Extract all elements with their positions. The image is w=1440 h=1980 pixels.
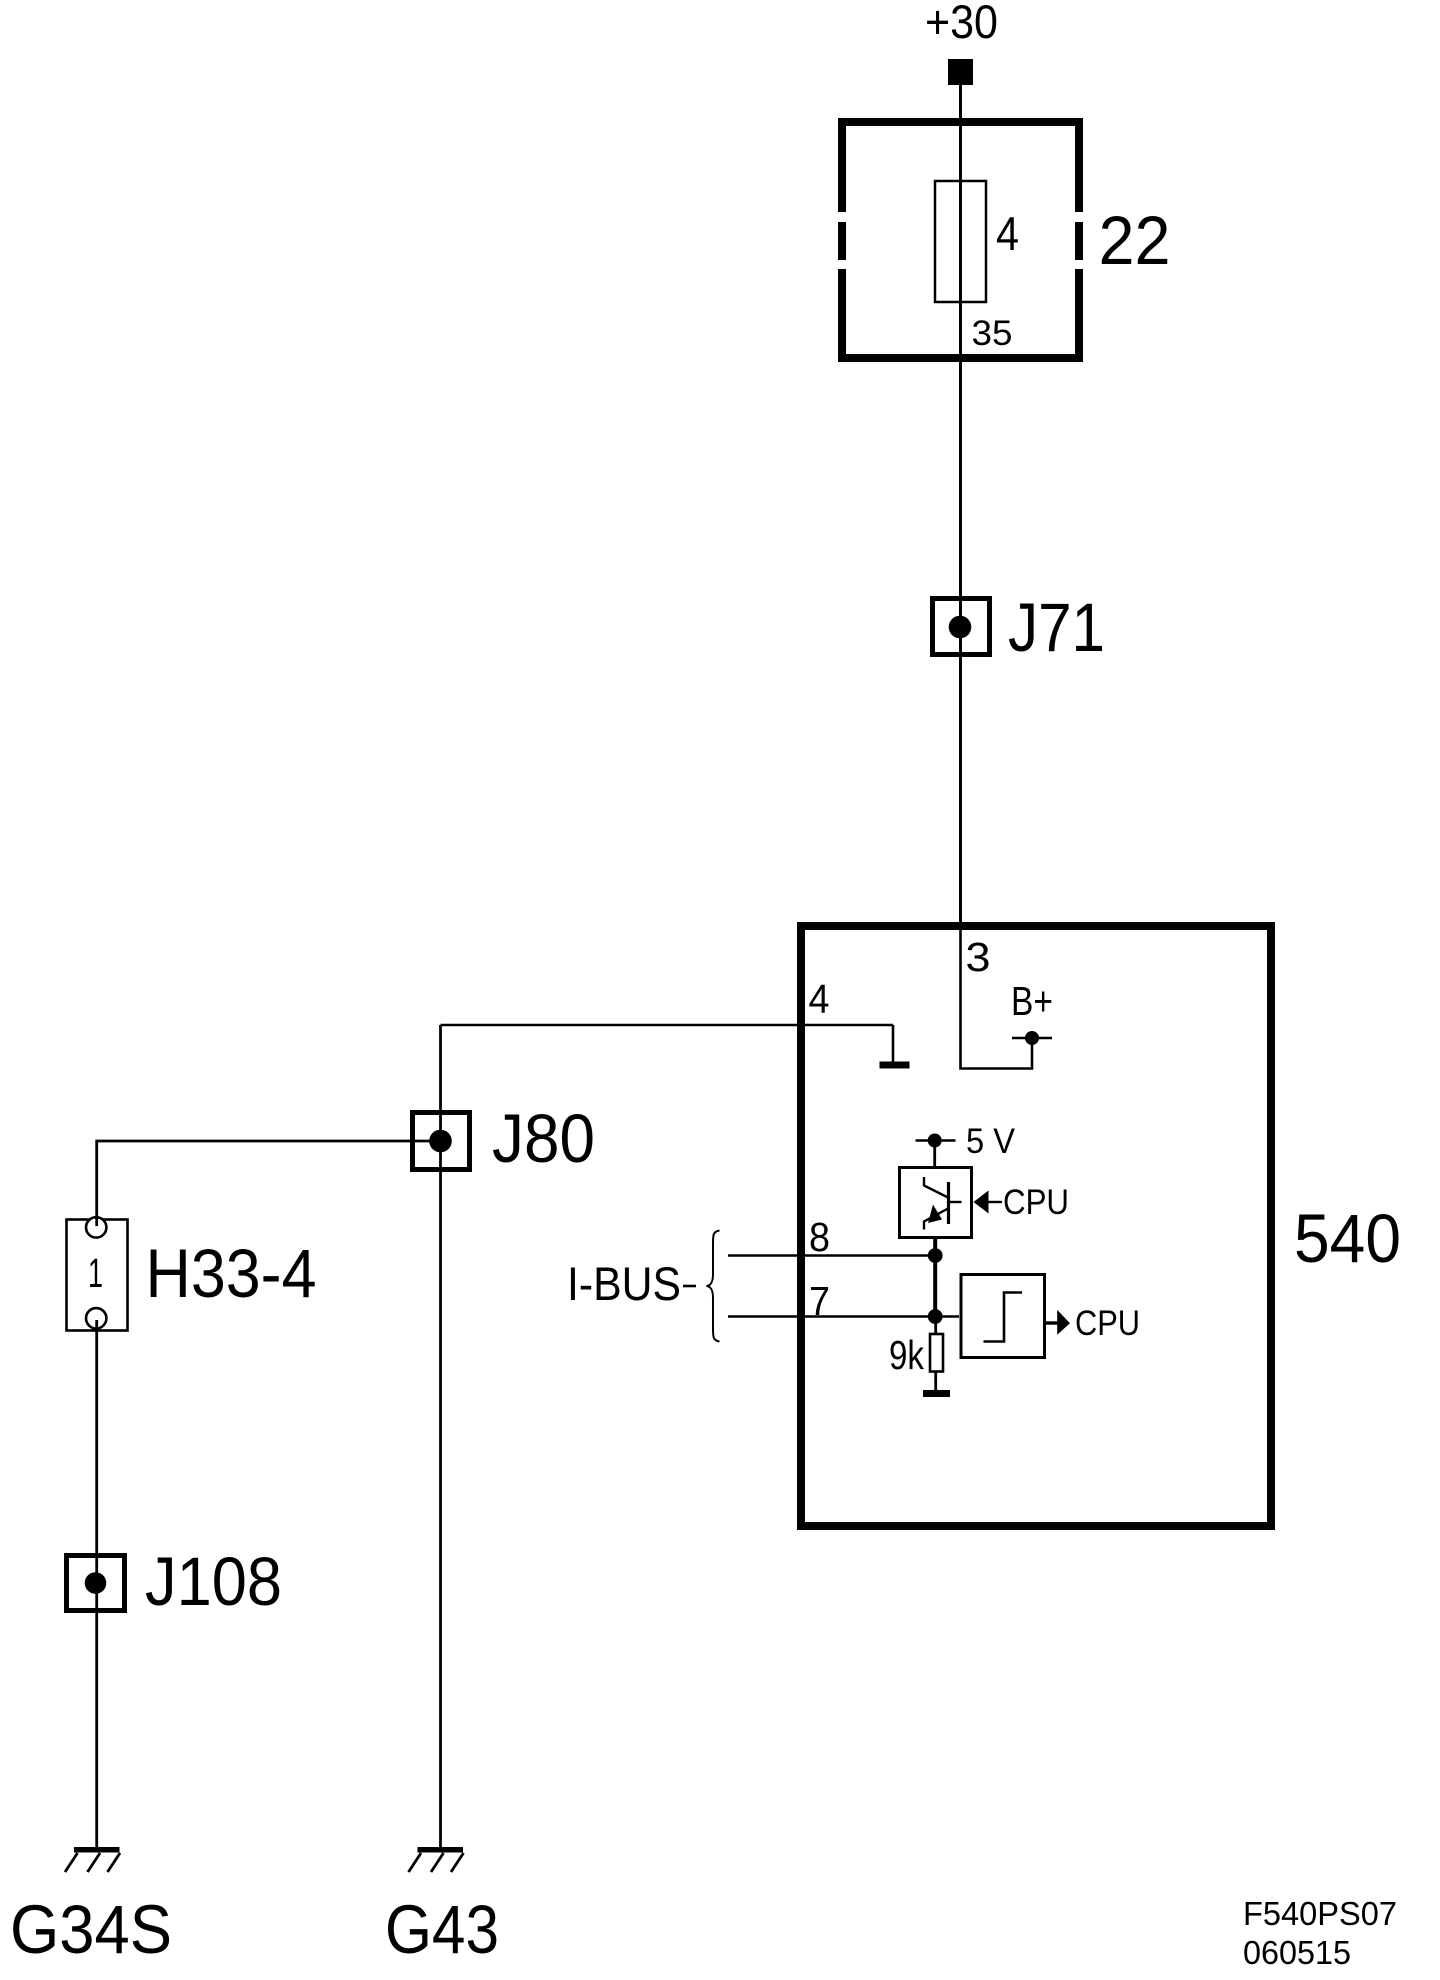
wire 5V to optocoupler [933,1146,936,1167]
pin 8 wire [728,1254,935,1257]
wire from J71 down to control module 540 pin 3 [959,627,962,926]
fusebox 22 top border [838,118,1083,126]
optocoupler U1 box [900,1168,972,1238]
5V supply bar [916,1139,956,1142]
svg-text:4: 4 [809,976,830,1022]
connector H33-4 bottom circle [86,1308,106,1328]
wire optocoupler down through node 8 to node 7 [933,1237,937,1317]
svg-text:F540PS07: F540PS07 [1243,1895,1397,1932]
svg-text:7: 7 [809,1278,830,1324]
wire from +30 square down to fuse box 22 [959,85,962,182]
I-BUS brace [707,1231,720,1342]
B+ node bar [1012,1037,1052,1039]
svg-text:G43: G43 [385,1891,499,1968]
optocoupler transistor collector tick [924,1177,948,1198]
junction J108 dot [85,1572,107,1594]
wire down to H33-4 [95,1140,98,1218]
pin 4 internal ground bar [880,1062,910,1069]
node 8 junction dot [928,1248,943,1263]
wire from fuse down to junction J71 [959,302,962,627]
schmitt trigger step symbol [984,1293,1023,1342]
wire H33-4 down to J108 [95,1328,98,1583]
CPU arrow out of schmitt lead [1043,1321,1058,1324]
wire pin4 corner down to J80 [439,1025,442,1141]
connector H33-4 top circle [86,1217,106,1237]
svg-text:+30: +30 [925,0,998,48]
H33-4 bottom circle wire stub [95,1320,98,1329]
fusebox 22 left dashed border [838,118,846,362]
5V supply dot [928,1134,942,1148]
svg-text:J108: J108 [145,1543,282,1620]
wire J80 down to ground G43 [439,1141,442,1847]
svg-text:J71: J71 [1008,589,1105,666]
I-BUS dash [683,1285,696,1288]
internal ground bar under 9k [923,1390,950,1397]
control module 540 box [801,926,1271,1526]
node +30 terminal square [948,59,973,85]
junction J108 box [67,1556,125,1611]
node 7 junction dot [928,1309,943,1324]
junction J71 dot [949,616,972,639]
ground G34S bar [74,1847,120,1853]
fusebox 22 bottom border [838,354,1083,362]
fuse 4 element body [935,181,986,302]
svg-text:9k: 9k [889,1332,924,1378]
CPU arrow lead line [988,1201,1002,1203]
svg-text:22: 22 [1099,202,1171,279]
resistor 9k body [930,1334,943,1372]
wire J80 left to H33-4 branch [97,1140,440,1143]
svg-text:1: 1 [88,1250,103,1296]
pin 7 wire [728,1315,959,1318]
wire inside fuse 4 [959,182,962,302]
ground G43 hatches [409,1853,464,1872]
svg-text:CPU: CPU [1075,1304,1140,1343]
junction J80 box [413,1113,470,1170]
ground G34S hatches [65,1853,120,1872]
resistor 9k wire top [934,1317,937,1334]
resistor 9k wire bottom [934,1372,937,1392]
connector H33-4 box [67,1220,128,1331]
svg-text:060515: 060515 [1243,1934,1351,1971]
svg-text:B+: B+ [1011,978,1053,1024]
optocoupler transistor emitter lead [924,1209,948,1230]
wire pin 4 from module to left corner [441,1024,894,1027]
optocoupler emitter arrowhead [928,1205,942,1224]
wire J108 down to ground G34S [95,1583,98,1847]
optocoupler transistor base lead [949,1201,962,1203]
schmitt trigger U2 box [961,1275,1045,1358]
svg-text:G34S: G34S [10,1891,172,1968]
pin 4 internal ground stem [892,1025,895,1062]
svg-text:CPU: CPU [1003,1183,1069,1222]
H33-4 top circle wire stub [95,1217,98,1226]
ground G43 bar [418,1847,464,1853]
junction J80 dot [429,1130,452,1153]
optocoupler transistor base bar [947,1182,950,1224]
svg-text:I-BUS: I-BUS [567,1257,681,1310]
svg-text:540: 540 [1294,1200,1401,1277]
wire pin3 to B+ corner [961,926,1033,1069]
svg-text:J80: J80 [492,1100,595,1177]
svg-text:4: 4 [996,207,1019,260]
svg-text:5 V: 5 V [966,1122,1016,1161]
CPU arrow out head [1057,1310,1070,1335]
svg-text:35: 35 [972,314,1013,353]
B+ node dot [1025,1031,1039,1045]
junction J71 box [933,599,990,655]
svg-text:H33-4: H33-4 [146,1235,317,1312]
svg-text:8: 8 [809,1214,830,1260]
svg-text:3: 3 [966,934,991,980]
CPU arrow into optocoupler [974,1191,989,1214]
fusebox 22 right dashed border [1075,118,1083,362]
